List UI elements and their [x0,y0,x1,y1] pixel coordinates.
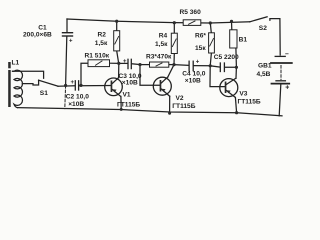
resistor R2 box [114,31,120,51]
capacitor C4 plates [189,61,193,70]
svg-text:+: + [71,80,75,86]
capacitor C3 plates [128,59,131,68]
capacitor C1 plates [63,33,73,36]
wire dashed from node to bottom rail [64,86,67,109]
inductor L1 (antenna coil) [13,70,23,107]
resistor R1 leads [81,63,88,85]
svg-text:1,5к: 1,5к [95,40,108,47]
earphone B1 box [230,30,237,48]
capacitor C4 wires [174,64,189,67]
wire L1 tap to S1 pivot [22,80,38,85]
wire C3 node to V2 base [140,65,160,86]
svg-text:+: + [196,60,200,66]
svg-text:L1: L1 [12,59,20,66]
svg-text:1,5к: 1,5к [155,41,168,48]
wire L1 top to S1 contact [13,71,44,78]
svg-text:R6*: R6* [195,33,206,40]
svg-text:200,0×6В: 200,0×6В [23,32,52,39]
svg-text:ГТ115Б: ГТ115Б [117,101,140,108]
resistor R1 box [88,60,110,67]
svg-text:GB1: GB1 [258,63,272,70]
resistor R3 leads [140,64,150,66]
svg-text:+: + [123,59,127,65]
svg-text:C1: C1 [38,24,47,31]
switch S2 arm [250,17,267,22]
wire bottom rail [18,108,283,116]
earphone B1 lead to V3 collector [235,48,238,67]
transistor V1 [105,78,123,96]
resistor R3 box [150,62,169,67]
wire S1 to C2 [58,85,75,87]
capacitor C5 plates [220,63,224,72]
switch S1 arm [39,80,58,86]
svg-text:C4 10,0: C4 10,0 [182,70,205,77]
svg-text:+: + [285,85,289,92]
resistor R2 leads [116,21,118,31]
svg-text:V2: V2 [176,95,184,102]
capacitor C2 plates [75,81,78,90]
resistor R4 box [171,33,177,53]
svg-text:15к: 15к [195,45,206,52]
svg-text:×10В: ×10В [68,101,84,108]
resistor R6 leads [210,23,211,33]
transistor V3 [220,79,238,97]
resistor R6 box [209,33,215,53]
svg-text:ГТ115Б: ГТ115Б [172,103,195,110]
battery GB1 bottom lead [279,85,281,116]
svg-text:V1: V1 [123,91,131,98]
svg-text:+: + [69,39,73,45]
svg-text:4,5В: 4,5В [257,71,271,78]
capacitor C1 lower lead [66,37,67,86]
svg-text:R1 510к: R1 510к [85,53,110,60]
svg-text:S2: S2 [259,25,267,32]
svg-text:C2 10,0: C2 10,0 [66,94,89,101]
resistor R4 leads [173,23,175,34]
switch S2 contact and wire to corner [270,19,280,55]
svg-text:B1: B1 [239,37,248,44]
earphone B1 top lead [231,21,233,30]
transistor V2 [153,77,171,95]
svg-text:R4: R4 [159,32,168,39]
wire top rail [67,19,250,23]
svg-text:ГТ115Б: ГТ115Б [238,98,261,105]
wire C5 node to V3 base [210,66,225,87]
svg-text:S1: S1 [40,90,48,97]
capacitor C5 wires [210,66,220,67]
ferrite rod of magnetic antenna [8,62,11,107]
svg-text:C5 2200: C5 2200 [214,54,239,61]
junction dots [64,20,238,115]
svg-text:×10В: ×10В [122,80,138,87]
battery GB1 cell1 plates [275,55,285,57]
svg-text:R3*470к: R3*470к [146,53,172,60]
battery GB1 cell separator dashes [280,66,282,80]
wire C2 to V1 base [79,85,111,87]
svg-text:V3: V3 [239,91,247,98]
svg-text:R2: R2 [98,32,107,39]
capacitor C1 lead from top rail [66,19,68,32]
svg-text:R5 360: R5 360 [180,9,202,16]
capacitor C3 wires [119,62,128,64]
battery GB1 cell2 plates [276,80,285,82]
svg-text:×10В: ×10В [185,78,201,85]
resistor R5 box [183,20,201,26]
svg-text:−: − [285,51,289,58]
